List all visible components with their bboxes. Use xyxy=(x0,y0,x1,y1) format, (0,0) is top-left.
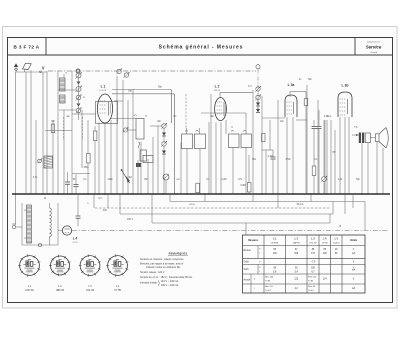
wire stub xyxy=(344,194,346,214)
wire xyxy=(334,130,336,194)
tube socket L1 UCH81 xyxy=(20,256,40,276)
svg-text:UY 85: UY 85 xyxy=(322,242,329,244)
table row lines xyxy=(243,245,366,247)
wire link xyxy=(72,113,96,115)
svg-text:HP: HP xyxy=(332,152,336,154)
wire xyxy=(292,117,294,194)
wire stub xyxy=(252,194,254,202)
wire xyxy=(152,137,154,194)
capacitor C8 xyxy=(65,181,70,183)
resistor R14 xyxy=(262,134,266,142)
svg-text:mA: mA xyxy=(352,287,356,290)
wire link xyxy=(186,128,188,134)
svg-text:Département: Département xyxy=(367,41,380,44)
rectifier L4 tube xyxy=(62,226,71,235)
wire xyxy=(248,155,250,183)
svg-text:Écrans: Écrans xyxy=(244,249,252,252)
wire link xyxy=(296,119,307,121)
wire xyxy=(330,120,332,194)
wire plate link xyxy=(352,134,359,136)
unit dashed edge xyxy=(63,117,65,140)
capacitor C33 xyxy=(312,126,317,128)
title block divider right xyxy=(354,38,356,56)
switch contact blob xyxy=(136,163,141,167)
capacitor C9 xyxy=(74,184,79,186)
svg-text:220k: 220k xyxy=(108,179,114,181)
wire stub xyxy=(107,194,109,208)
wire xyxy=(140,142,142,195)
svg-text:Central: Central xyxy=(370,51,378,54)
svg-text:L 4: L 4 xyxy=(73,237,78,241)
diode D3 xyxy=(256,103,260,106)
IFT2 secondary xyxy=(195,134,206,149)
wire link xyxy=(72,173,90,175)
resistor R15 xyxy=(304,99,308,106)
svg-text:2,2M: 2,2M xyxy=(221,179,226,181)
trimmer C6 xyxy=(124,73,128,77)
svg-text:Hex. 140: Hex. 140 xyxy=(265,277,274,279)
wire xyxy=(127,100,129,194)
tuning gang shaft node xyxy=(256,65,260,69)
transformer base xyxy=(22,244,58,246)
wire xyxy=(306,85,308,194)
unit dashed edge xyxy=(82,117,84,140)
wire xyxy=(352,194,354,208)
svg-text:L 3b: L 3b xyxy=(342,84,349,88)
svg-text:Grille: Grille xyxy=(244,260,250,263)
wire xyxy=(151,194,153,223)
wire xyxy=(180,143,182,195)
svg-text:Tensions et courants : valeurs: Tensions et courants : valeurs moyennes. xyxy=(140,258,184,261)
tube socket L3 UCL82 xyxy=(80,256,100,276)
wire xyxy=(339,117,341,194)
trimmer CO2 xyxy=(162,142,166,146)
wire xyxy=(348,117,350,194)
line cord xyxy=(16,226,22,228)
svg-text:0,5M: 0,5M xyxy=(240,185,245,187)
wire xyxy=(169,194,171,202)
capacitor C30 xyxy=(271,156,276,158)
aerial coil lower xyxy=(60,95,66,103)
fuse xyxy=(38,243,41,246)
title block divider left xyxy=(45,38,47,56)
volume potentiometer xyxy=(163,174,169,180)
wire xyxy=(119,194,121,214)
svg-text:Hex. 2,6: Hex. 2,6 xyxy=(265,286,273,288)
svg-text:110 V ~ 248 mA.: 110 V ~ 248 mA. xyxy=(161,280,179,283)
wire dashed AVC drop xyxy=(185,94,187,128)
wire xyxy=(269,120,271,150)
wire xyxy=(57,71,59,194)
trimmer CO1 xyxy=(162,124,166,128)
trimmer CA3 xyxy=(76,95,81,100)
wire xyxy=(122,80,124,194)
wire xyxy=(163,128,165,132)
svg-text:C.V.: C.V. xyxy=(248,86,253,88)
svg-text:Tri 0,5: Tri 0,5 xyxy=(308,289,315,292)
wire xyxy=(332,202,334,215)
wire grid link xyxy=(262,117,285,119)
wire xyxy=(324,120,326,194)
wire xyxy=(57,203,59,245)
svg-text:M: M xyxy=(44,198,46,200)
wire xyxy=(245,223,247,235)
padding trimmer xyxy=(123,128,127,132)
oscillator core mark xyxy=(138,142,139,149)
wire link xyxy=(262,149,273,151)
IFT2 primary xyxy=(182,134,193,149)
wire xyxy=(286,117,288,194)
svg-text:Tension au +C.G. : 182 V ; Int: Tension au +C.G. : 182 V ; Intensité tot… xyxy=(140,276,193,279)
wire xyxy=(361,143,363,194)
resistor R3 xyxy=(93,131,97,141)
rail xyxy=(120,213,333,215)
ground bus xyxy=(12,193,390,195)
svg-text:vol: vol xyxy=(177,179,180,181)
tube socket L2 UBF80 xyxy=(51,256,70,275)
svg-text:Anode: Anode xyxy=(244,279,251,282)
trimmer CD2 xyxy=(256,95,260,99)
wire xyxy=(63,74,65,78)
svg-text:Pent 170: Pent 170 xyxy=(308,276,317,279)
wire xyxy=(98,123,100,195)
diode D4 xyxy=(256,109,260,112)
wire xyxy=(78,73,80,120)
wire xyxy=(252,90,254,194)
wire xyxy=(110,120,112,194)
wire xyxy=(94,126,96,131)
wire xyxy=(35,120,37,194)
wire xyxy=(265,150,267,194)
frame aerial xyxy=(23,63,32,69)
svg-text:UY 85: UY 85 xyxy=(72,242,77,244)
wire link xyxy=(58,89,76,91)
wire xyxy=(317,100,319,194)
svg-text:mA: mA xyxy=(352,252,356,255)
power transformer secondary xyxy=(50,208,52,237)
svg-text:58 mA: 58 mA xyxy=(297,203,304,206)
wire stub xyxy=(93,194,95,208)
output transformer core xyxy=(359,133,361,144)
IFT2 cores xyxy=(185,130,199,131)
wire link xyxy=(370,137,375,139)
svg-text:T.S.: T.S. xyxy=(354,127,358,129)
svg-text:V: V xyxy=(42,65,45,70)
svg-text:+C.G.: +C.G. xyxy=(189,204,195,206)
wire xyxy=(220,123,222,195)
wire xyxy=(94,141,96,195)
wire xyxy=(49,203,51,208)
wire link xyxy=(114,100,123,102)
tube L3a UCL82 triode xyxy=(285,95,297,117)
tone pot xyxy=(322,177,327,182)
unit boundary xyxy=(96,102,118,124)
wire stub xyxy=(310,194,312,202)
wire link xyxy=(150,125,162,127)
oscillator padder box xyxy=(143,156,153,163)
heater chain dash-dot xyxy=(72,230,389,232)
wire xyxy=(186,149,188,195)
wire xyxy=(165,180,167,194)
tube L1 UCH81 triode-hexode xyxy=(97,94,112,123)
IFT1 primary xyxy=(136,119,144,140)
trimmer xyxy=(38,159,42,163)
wire xyxy=(305,92,307,99)
wire link xyxy=(59,109,76,111)
diode arrow xyxy=(77,104,81,107)
mains plug xyxy=(12,225,15,228)
table sub divider V/I xyxy=(257,246,259,259)
tube socket L4 UY85 xyxy=(108,256,128,276)
svg-text:UCL 82: UCL 82 xyxy=(86,289,95,292)
svg-text:UCH 81: UCH 81 xyxy=(25,289,34,292)
svg-text:UBF 80: UBF 80 xyxy=(293,242,301,244)
svg-text:UBF 80: UBF 80 xyxy=(56,289,65,292)
diode D2 xyxy=(162,151,166,154)
resistor R12 xyxy=(247,183,251,193)
IFT1 core mark xyxy=(134,115,137,116)
svg-text:B 3 F 72 A: B 3 F 72 A xyxy=(13,45,39,50)
svg-text:Mesures: Mesures xyxy=(248,239,258,242)
wire xyxy=(344,117,346,194)
svg-text:220 V ~ 130 mA.: 220 V ~ 130 mA. xyxy=(161,284,179,287)
wire stub xyxy=(204,194,206,202)
wire xyxy=(199,149,201,195)
svg-text:L 2: L 2 xyxy=(215,85,220,89)
tube L3b UCL82 pentode xyxy=(338,92,352,117)
svg-text:mA: mA xyxy=(352,269,356,272)
wire xyxy=(87,163,89,194)
wire xyxy=(277,100,279,194)
wire xyxy=(257,100,259,103)
IFT3 cores xyxy=(231,130,246,131)
diode D1 xyxy=(162,133,166,136)
band switch S1 xyxy=(44,156,53,168)
svg-text:Tri 87: Tri 87 xyxy=(308,280,314,283)
wire xyxy=(87,120,89,154)
svg-text:1M: 1M xyxy=(128,177,131,179)
svg-text:−7,5: −7,5 xyxy=(311,261,316,263)
title band bottom rule xyxy=(8,54,393,56)
svg-text:Tri 0,2: Tri 0,2 xyxy=(265,289,272,292)
svg-text:AVC: AVC xyxy=(103,209,108,212)
wire xyxy=(210,94,212,194)
wire xyxy=(71,71,73,194)
wire xyxy=(81,110,83,168)
wire link xyxy=(128,129,136,131)
output transformer secondary xyxy=(365,133,370,143)
table frame xyxy=(243,235,366,293)
svg-text:UCH 81: UCH 81 xyxy=(271,242,279,244)
svg-text:4,7M: 4,7M xyxy=(267,156,272,158)
wire grid link xyxy=(201,112,246,114)
speaker voice coil xyxy=(375,134,379,142)
wire xyxy=(367,143,369,195)
svg-text:Tension réseau : 124 V.: Tension réseau : 124 V. xyxy=(140,271,165,274)
wire xyxy=(24,209,27,211)
wire plate link xyxy=(289,92,291,98)
wire xyxy=(329,214,331,223)
IFT3 secondary xyxy=(241,134,252,148)
wire xyxy=(323,182,325,195)
wire xyxy=(157,126,159,194)
svg-text:L 3a: L 3a xyxy=(288,83,295,87)
svg-text:UY 85: UY 85 xyxy=(114,289,121,292)
wire xyxy=(215,123,217,195)
wire xyxy=(232,148,234,195)
wire xyxy=(46,71,48,194)
wire xyxy=(116,76,118,194)
wire xyxy=(137,160,139,194)
capacitor C34 xyxy=(317,126,322,128)
AVC rail dashed xyxy=(95,207,331,209)
svg-text:182 V: 182 V xyxy=(127,219,133,221)
svg-text:Cadran: Cadran xyxy=(333,241,341,244)
wire frame-aerial drop xyxy=(24,70,26,73)
wire xyxy=(364,202,366,231)
oscillator coil box xyxy=(140,150,147,161)
trimmer CA2 xyxy=(76,87,81,92)
resistor R16 xyxy=(312,166,316,176)
trimmer C5 xyxy=(117,69,121,73)
wire xyxy=(21,203,23,245)
wire xyxy=(272,159,274,194)
svg-text:Intensité réseau: Intensité réseau xyxy=(140,282,158,285)
svg-text:Schéma général - Mesures: Schéma général - Mesures xyxy=(159,44,244,50)
wire xyxy=(225,120,227,134)
svg-text:Pent 46: Pent 46 xyxy=(308,285,316,288)
svg-text:Service: Service xyxy=(366,45,382,50)
chassis dash-dot rail top xyxy=(48,70,256,72)
wire xyxy=(147,159,149,194)
capacitor filter xyxy=(76,215,81,217)
trimmer CA4 xyxy=(76,108,81,113)
wire xyxy=(376,141,378,194)
trimmer CD1 xyxy=(256,87,260,91)
svg-text:150p: 150p xyxy=(83,167,89,169)
wire xyxy=(245,113,247,134)
svg-text:50µ: 50µ xyxy=(356,179,361,181)
wire xyxy=(132,90,134,195)
table column lines xyxy=(263,235,265,293)
wire grid link upper xyxy=(112,89,170,91)
node on rail xyxy=(76,69,80,73)
svg-text:Unités: Unités xyxy=(350,239,358,242)
tube L2 UBF80 xyxy=(215,98,227,121)
svg-text:UCL 82: UCL 82 xyxy=(310,242,318,244)
wire link plate xyxy=(111,118,136,120)
aerial coil upper xyxy=(60,78,66,91)
svg-text:Tri 85: Tri 85 xyxy=(265,280,271,283)
resistor R9 xyxy=(196,183,200,193)
svg-text:UCH 81: UCH 81 xyxy=(100,90,107,92)
svg-text:470k: 470k xyxy=(286,159,292,161)
wire xyxy=(30,70,32,194)
HT rail xyxy=(170,201,365,203)
svg-text:Cath.: Cath. xyxy=(244,268,250,271)
svg-text:Chassis i sortie ou voltmè: Chassis i sortie ou voltmètre 6tp. xyxy=(146,266,181,269)
wire grid link lower xyxy=(112,93,173,95)
wire xyxy=(245,148,247,195)
wire xyxy=(52,120,54,194)
wire plate link xyxy=(219,92,221,97)
switch arm xyxy=(122,170,130,183)
svg-text:tone: tone xyxy=(327,115,332,118)
wire xyxy=(104,123,106,195)
wire link xyxy=(45,130,72,132)
wire xyxy=(208,122,210,194)
power transformer primary xyxy=(27,205,32,243)
resistor R2 xyxy=(51,124,54,133)
drawing border frame xyxy=(8,38,393,303)
wire xyxy=(382,148,384,194)
rail xyxy=(152,222,330,224)
svg-text:UBF 80: UBF 80 xyxy=(214,90,220,92)
speaker cone xyxy=(379,128,388,149)
wire xyxy=(261,96,263,194)
IFT3 primary xyxy=(229,134,240,148)
diode arrow xyxy=(77,82,81,85)
trimmer CA1 xyxy=(76,73,81,78)
antenna xyxy=(14,63,18,67)
wire stub xyxy=(277,194,279,208)
antenna input wire xyxy=(16,71,48,73)
svg-text:L 1: L 1 xyxy=(101,85,106,89)
svg-text:REMARQUES: REMARQUES xyxy=(169,252,188,256)
wire xyxy=(326,120,328,194)
resistor R1 xyxy=(87,154,91,164)
